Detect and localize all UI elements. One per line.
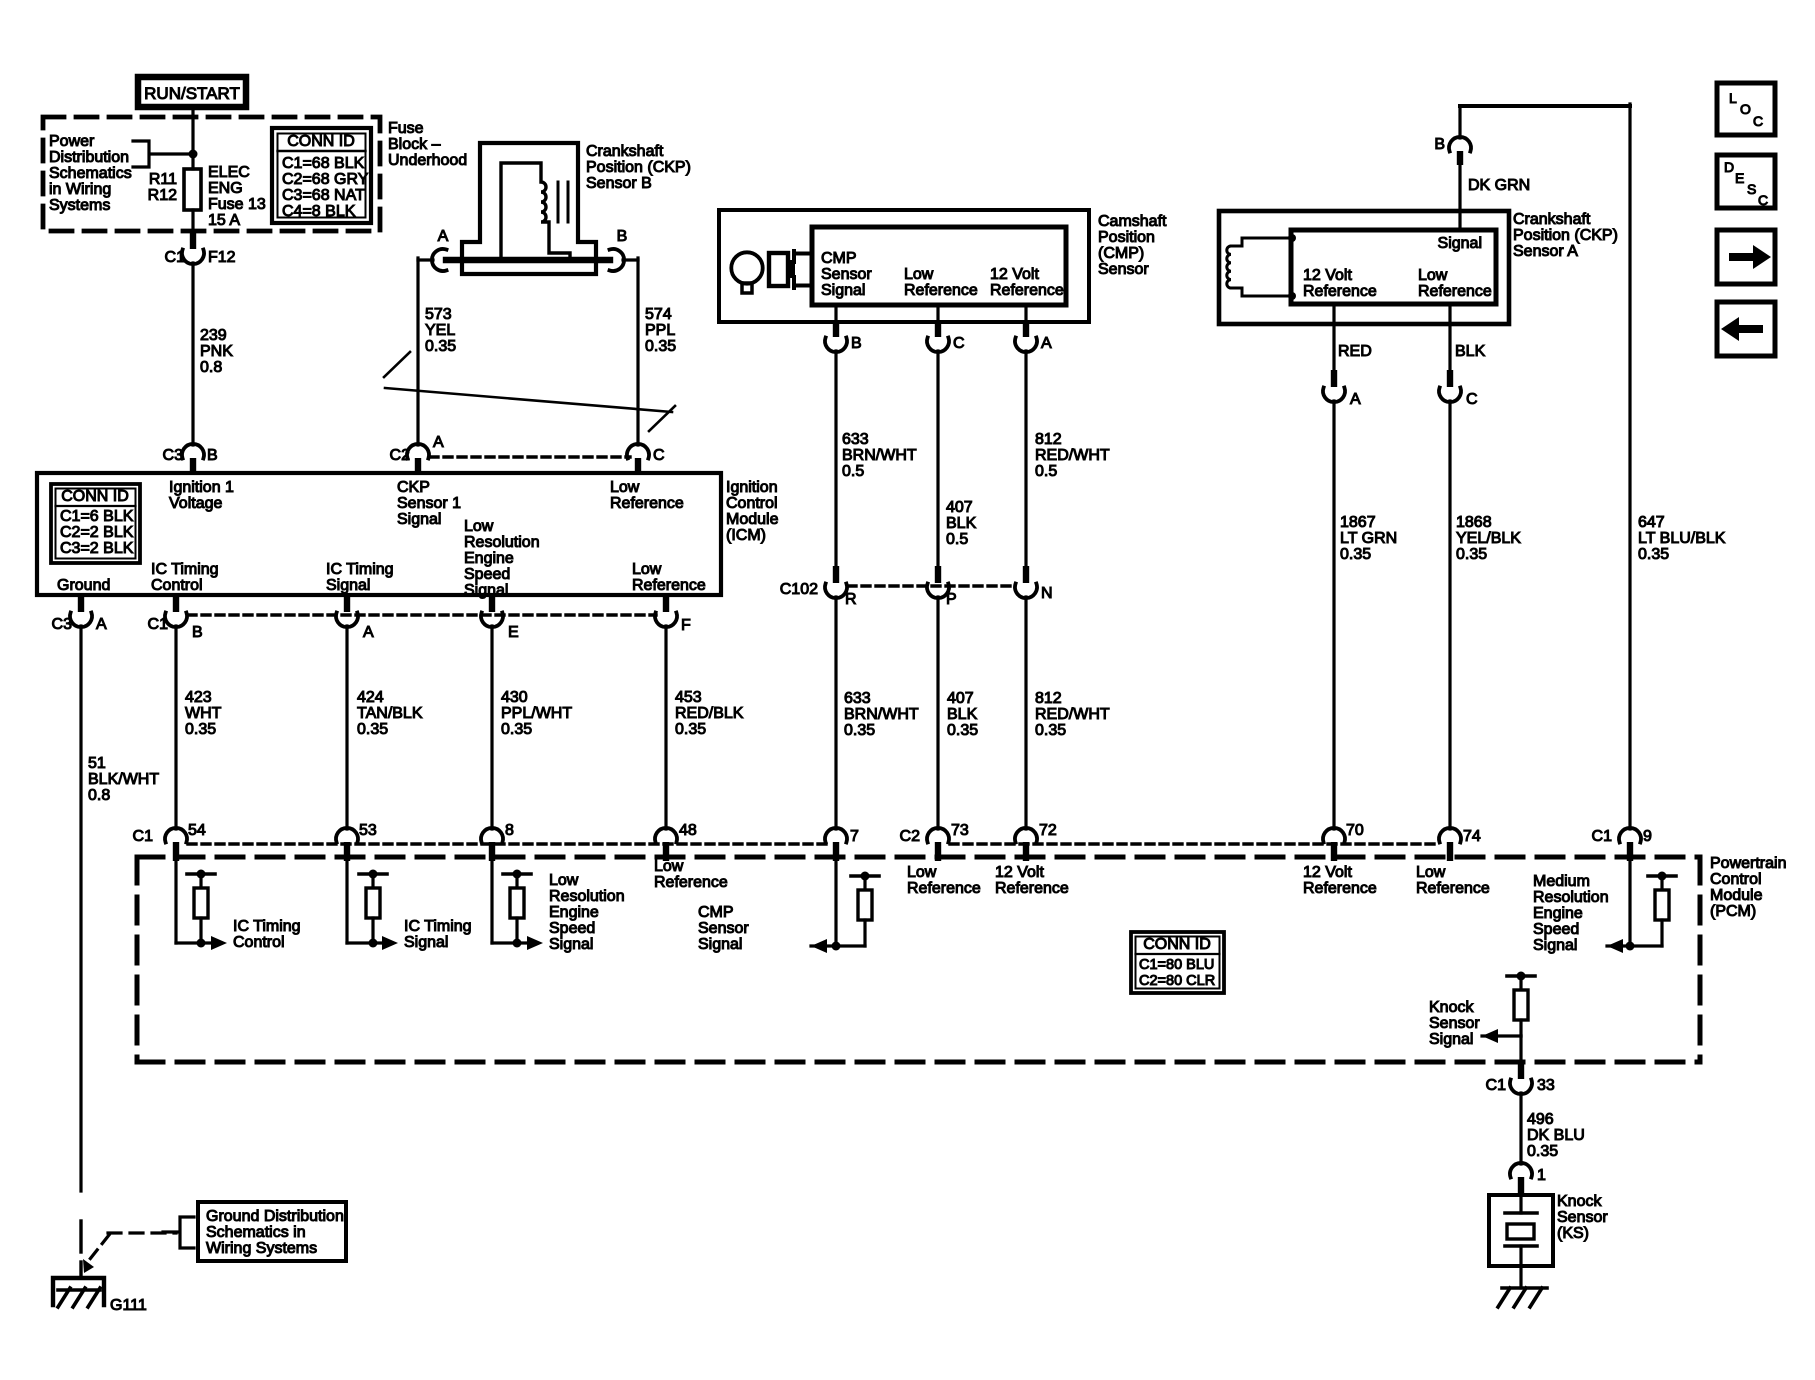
svg-text:Crankshaft: Crankshaft: [586, 143, 664, 160]
svg-text:Block –: Block –: [388, 136, 441, 153]
svg-text:Control: Control: [1710, 871, 1762, 888]
svg-text:Control: Control: [726, 495, 778, 512]
svg-text:496: 496: [1527, 1111, 1554, 1128]
dashed connector line C2/C1 PCM right: [950, 842, 1440, 845]
svg-text:Low: Low: [907, 864, 937, 881]
svg-text:CONN ID: CONN ID: [61, 488, 129, 505]
svg-text:Engine: Engine: [464, 550, 514, 567]
svg-text:Systems: Systems: [49, 197, 110, 214]
svg-text:Low: Low: [1418, 267, 1448, 284]
svg-text:73: 73: [951, 822, 969, 839]
svg-text:Signal: Signal: [404, 934, 448, 951]
svg-text:812: 812: [1035, 431, 1062, 448]
left arrow nav box: [1717, 302, 1775, 356]
wire 812 RED/WHT 0.35: [1024, 597, 1027, 829]
svg-text:8: 8: [505, 822, 514, 839]
svg-text:Fuse 13: Fuse 13: [208, 196, 266, 213]
svg-text:0.35: 0.35: [357, 721, 388, 738]
svg-text:Control: Control: [233, 934, 285, 951]
dashed connector line C2: [430, 455, 630, 458]
CKP sensor B pin bus bar: [446, 257, 610, 263]
svg-text:Signal: Signal: [397, 511, 441, 528]
wire RUN/START to fuse: [191, 110, 194, 169]
svg-text:Engine: Engine: [549, 904, 599, 921]
connector C at ICM top: [627, 444, 649, 459]
svg-text:Power: Power: [49, 133, 95, 150]
connector 53: [336, 828, 358, 843]
connector C102 P: [935, 566, 941, 583]
svg-text:574: 574: [645, 306, 672, 323]
ground distribution reference box: [198, 1202, 346, 1261]
svg-text:IC Timing: IC Timing: [151, 561, 219, 578]
svg-text:O: O: [1740, 101, 1751, 117]
svg-text:N: N: [1041, 585, 1053, 602]
svg-text:Ground Distribution: Ground Distribution: [206, 1208, 344, 1225]
svg-text:430: 430: [501, 689, 528, 706]
svg-text:74: 74: [1463, 828, 1481, 845]
svg-text:Ignition: Ignition: [726, 479, 778, 496]
crankshaft position sensor A outer box: [1219, 211, 1509, 324]
svg-text:RUN/START: RUN/START: [144, 84, 240, 103]
svg-text:Position: Position: [1098, 229, 1155, 246]
svg-text:53: 53: [359, 822, 377, 839]
svg-text:C1: C1: [148, 616, 169, 633]
svg-text:Voltage: Voltage: [169, 495, 222, 512]
svg-text:DK BLU: DK BLU: [1527, 1127, 1585, 1144]
svg-text:647: 647: [1638, 514, 1665, 531]
svg-text:IC Timing: IC Timing: [404, 918, 472, 935]
wire 239 PNK 0.8: [191, 263, 194, 445]
svg-text:C102: C102: [780, 581, 818, 598]
svg-text:C3: C3: [163, 447, 184, 464]
svg-text:WHT: WHT: [185, 705, 222, 722]
svg-text:C1: C1: [1592, 828, 1613, 845]
svg-text:Sensor: Sensor: [1098, 261, 1149, 278]
svg-text:PPL: PPL: [645, 322, 675, 339]
svg-text:(KS): (KS): [1557, 1225, 1589, 1242]
PCM input medium resolution engine speed signal: [1628, 861, 1631, 946]
svg-text:C: C: [1753, 113, 1763, 129]
svg-text:0.35: 0.35: [1638, 546, 1669, 563]
svg-text:IC Timing: IC Timing: [233, 918, 301, 935]
svg-text:0.35: 0.35: [844, 722, 875, 739]
CONN ID table ICM: [51, 484, 140, 563]
wire 1867 LT GRN 0.35: [1332, 401, 1335, 829]
svg-text:F12: F12: [208, 249, 236, 266]
wire 633 BRN/WHT 0.35: [834, 597, 837, 829]
wire 423 WHT 0.35: [174, 626, 177, 829]
PCM driver IC timing signal: [345, 861, 348, 943]
svg-text:LT GRN: LT GRN: [1340, 530, 1397, 547]
fuse F13 ELEC ENG 15A: [184, 169, 201, 210]
svg-text:CONN ID: CONN ID: [1143, 936, 1211, 953]
ground distribution bracket: [163, 1217, 194, 1248]
svg-text:48: 48: [679, 822, 697, 839]
svg-text:C2: C2: [390, 447, 411, 464]
svg-text:0.5: 0.5: [946, 531, 968, 548]
svg-text:1: 1: [1537, 1167, 1546, 1184]
svg-text:423: 423: [185, 689, 212, 706]
svg-text:0.35: 0.35: [185, 721, 216, 738]
svg-text:Underhood: Underhood: [388, 152, 467, 169]
svg-text:CMP: CMP: [821, 250, 857, 267]
svg-text:Schematics: Schematics: [49, 165, 132, 182]
svg-text:Reference: Reference: [654, 874, 728, 891]
ground G111: [53, 1278, 104, 1305]
connector 74: [1439, 828, 1461, 843]
svg-text:Signal: Signal: [821, 282, 865, 299]
PCM input low resolution engine speed signal: [490, 861, 493, 943]
svg-text:Reference: Reference: [995, 880, 1069, 897]
svg-text:D: D: [1724, 159, 1734, 175]
svg-text:633: 633: [844, 690, 871, 707]
svg-text:Resolution: Resolution: [464, 534, 540, 551]
svg-text:0.8: 0.8: [200, 359, 222, 376]
svg-text:A: A: [438, 228, 449, 245]
svg-text:Ignition 1: Ignition 1: [169, 479, 234, 496]
svg-text:Module: Module: [726, 511, 779, 528]
connector 72: [1015, 828, 1037, 843]
svg-text:C2=2 BLK: C2=2 BLK: [60, 524, 134, 541]
svg-text:RED/WHT: RED/WHT: [1035, 447, 1110, 464]
CKP A pin C connector (low ref): [1448, 304, 1451, 371]
svg-text:Camshaft: Camshaft: [1098, 213, 1167, 230]
svg-text:CMP: CMP: [698, 904, 734, 921]
svg-text:Reference: Reference: [610, 495, 684, 512]
svg-text:Low: Low: [1416, 864, 1446, 881]
svg-text:Knock: Knock: [1557, 1193, 1602, 1210]
svg-text:Sensor B: Sensor B: [586, 175, 652, 192]
svg-text:Sensor: Sensor: [1557, 1209, 1608, 1226]
svg-text:(PCM): (PCM): [1710, 903, 1756, 920]
dashed branch to ground distribution: [108, 1231, 176, 1234]
connector C2 73: [927, 828, 949, 843]
wire 51 BLK/WHT 0.8: [79, 626, 82, 1191]
wire 424 TAN/BLK 0.35: [345, 626, 348, 829]
svg-text:72: 72: [1039, 822, 1057, 839]
svg-text:0.8: 0.8: [88, 787, 110, 804]
svg-text:DK GRN: DK GRN: [1468, 177, 1530, 194]
svg-text:RED: RED: [1338, 343, 1372, 360]
svg-text:Engine: Engine: [1533, 905, 1583, 922]
dashed connector line C1 PCM left: [188, 842, 828, 845]
PCM input CMP sensor signal: [834, 861, 837, 946]
svg-text:51: 51: [88, 755, 106, 772]
dashed connector line C102: [848, 584, 1014, 587]
svg-text:0.35: 0.35: [1340, 546, 1371, 563]
svg-text:B: B: [192, 624, 203, 641]
connector B top: [1449, 137, 1471, 152]
svg-text:BLK/WHT: BLK/WHT: [88, 771, 159, 788]
svg-text:C2=80 CLR: C2=80 CLR: [1139, 973, 1215, 989]
svg-text:Reference: Reference: [1418, 283, 1492, 300]
svg-text:407: 407: [947, 690, 974, 707]
wire 407 BLK 0.35: [936, 597, 939, 829]
svg-text:(CMP): (CMP): [1098, 245, 1144, 262]
svg-text:Sensor A: Sensor A: [1513, 243, 1578, 260]
svg-text:Low: Low: [549, 872, 579, 889]
svg-text:G111: G111: [110, 1297, 147, 1314]
svg-text:Speed: Speed: [1533, 921, 1579, 938]
crankshaft position sensor B outline: [462, 143, 596, 274]
connector C1 33: [1518, 1062, 1524, 1079]
svg-text:C2=68 GRY: C2=68 GRY: [282, 171, 369, 188]
svg-text:in Wiring: in Wiring: [49, 181, 111, 198]
svg-text:0.35: 0.35: [675, 721, 706, 738]
svg-text:1868: 1868: [1456, 514, 1492, 531]
CMP pin C connector: [936, 305, 939, 321]
wire 496 DK BLU 0.35: [1519, 1093, 1522, 1164]
svg-text:Medium: Medium: [1533, 873, 1590, 890]
svg-text:Reference: Reference: [1416, 880, 1490, 897]
svg-text:0.35: 0.35: [1527, 1143, 1558, 1160]
svg-text:C1: C1: [165, 249, 186, 266]
CONN ID table PCM: [1131, 932, 1224, 993]
PCM knock sensor input: [1507, 974, 1535, 978]
svg-text:Module: Module: [1710, 887, 1763, 904]
svg-text:33: 33: [1537, 1077, 1555, 1094]
svg-text:E: E: [508, 624, 519, 641]
svg-text:A: A: [96, 616, 107, 633]
svg-text:Wiring Systems: Wiring Systems: [206, 1240, 317, 1257]
svg-text:Signal: Signal: [326, 577, 370, 594]
connector A: [344, 595, 350, 612]
connector C2 A at ICM top: [407, 444, 429, 459]
connector C1 9: [1619, 828, 1641, 843]
svg-text:C4=8 BLK: C4=8 BLK: [282, 203, 356, 220]
CKP B pin B connector: [610, 249, 625, 271]
svg-text:Sensor: Sensor: [1429, 1015, 1480, 1032]
svg-text:0.35: 0.35: [425, 338, 456, 355]
svg-text:C1=80 BLU: C1=80 BLU: [1139, 957, 1214, 973]
connector C3 A ICM ground pin: [78, 595, 84, 612]
svg-text:C3=68 NAT: C3=68 NAT: [282, 187, 365, 204]
svg-text:BLK: BLK: [947, 706, 978, 723]
connector 70: [1323, 828, 1345, 843]
svg-text:Low: Low: [464, 518, 494, 535]
connector 7: [825, 828, 847, 843]
connector C1 B: [173, 595, 179, 612]
connector F: [663, 595, 669, 612]
connector C3 B at ICM top: [182, 444, 204, 459]
svg-text:ENG: ENG: [208, 180, 243, 197]
svg-text:R11: R11: [149, 171, 177, 188]
svg-text:Resolution: Resolution: [1533, 889, 1609, 906]
svg-text:C1: C1: [133, 828, 154, 845]
svg-text:(ICM): (ICM): [726, 527, 766, 544]
svg-text:A: A: [433, 434, 444, 451]
svg-text:Sensor 1: Sensor 1: [397, 495, 461, 512]
svg-text:A: A: [1350, 391, 1361, 408]
connector 48: [655, 828, 677, 843]
svg-text:C3=2 BLK: C3=2 BLK: [60, 540, 134, 557]
svg-text:C1=6 BLK: C1=6 BLK: [60, 508, 134, 525]
PCM driver IC timing control: [174, 861, 177, 943]
knock sensor ground: [1502, 1286, 1547, 1290]
svg-text:C1: C1: [1486, 1077, 1507, 1094]
svg-text:0.5: 0.5: [842, 463, 864, 480]
svg-text:B: B: [207, 447, 218, 464]
svg-text:PPL/WHT: PPL/WHT: [501, 705, 572, 722]
connector C102 R: [833, 566, 839, 583]
svg-text:Reference: Reference: [1303, 880, 1377, 897]
svg-text:424: 424: [357, 689, 384, 706]
svg-text:12 Volt: 12 Volt: [995, 864, 1044, 881]
svg-text:15 A: 15 A: [208, 212, 240, 229]
twisted pair marker: [384, 352, 410, 377]
connector 8: [481, 828, 503, 843]
wire top rail to CKP A signal: [1460, 104, 1630, 108]
svg-text:BLK: BLK: [1455, 343, 1486, 360]
svg-text:407: 407: [946, 499, 973, 516]
svg-text:CONN ID: CONN ID: [287, 133, 355, 150]
connector C1 54: [165, 828, 187, 843]
connector E: [489, 595, 495, 612]
svg-text:YEL: YEL: [425, 322, 455, 339]
svg-text:Signal: Signal: [1429, 1031, 1473, 1048]
CKP A coil: [1227, 238, 1292, 296]
svg-text:Signal: Signal: [1533, 937, 1577, 954]
svg-text:0.35: 0.35: [501, 721, 532, 738]
power distribution bracket: [133, 141, 193, 167]
svg-text:Crankshaft: Crankshaft: [1513, 211, 1591, 228]
camshaft position sensor CMP outer box: [719, 210, 1089, 322]
dashed connector line C1 ICM bottom: [188, 613, 656, 616]
svg-text:573: 573: [425, 306, 452, 323]
svg-text:633: 633: [842, 431, 869, 448]
svg-text:BRN/WHT: BRN/WHT: [844, 706, 919, 723]
right arrow nav box: [1717, 230, 1775, 284]
CMP pin B connector: [834, 305, 837, 321]
svg-text:9: 9: [1643, 828, 1652, 845]
svg-text:Position (CKP): Position (CKP): [586, 159, 691, 176]
connector pin 1 knock sensor: [1510, 1163, 1532, 1178]
svg-text:Low: Low: [632, 561, 662, 578]
svg-text:C: C: [653, 447, 665, 464]
svg-text:Signal: Signal: [698, 936, 742, 953]
svg-text:0.35: 0.35: [1035, 722, 1066, 739]
CMP sensor plug: [769, 253, 788, 286]
wire DK GRN: [1458, 165, 1461, 230]
wire fuse to C1 F12: [191, 210, 194, 233]
CKP B pin A connector: [432, 249, 447, 271]
svg-text:Sensor: Sensor: [698, 920, 749, 937]
svg-text:IC Timing: IC Timing: [326, 561, 394, 578]
svg-text:R: R: [845, 591, 857, 608]
junction dot power distribution tap: [189, 150, 198, 159]
wire 633 BRN/WHT 0.5: [834, 351, 837, 566]
svg-text:Control: Control: [151, 577, 203, 594]
svg-text:C: C: [1758, 192, 1768, 208]
svg-text:0.5: 0.5: [1035, 463, 1057, 480]
svg-text:Fuse: Fuse: [388, 120, 424, 137]
svg-text:0.35: 0.35: [947, 722, 978, 739]
svg-text:BLK: BLK: [946, 515, 977, 532]
wire 430 PPL/WHT 0.35: [490, 626, 493, 829]
ignition control module ICM box: [37, 473, 721, 595]
svg-text:PNK: PNK: [200, 343, 233, 360]
svg-text:RED/BLK: RED/BLK: [675, 705, 744, 722]
svg-text:C: C: [1466, 391, 1478, 408]
CMP sensor magnet circle: [731, 252, 762, 283]
svg-text:Sensor: Sensor: [821, 266, 872, 283]
svg-text:Powertrain: Powertrain: [1710, 855, 1786, 872]
powertrain control module PCM dashed border: [137, 855, 1700, 860]
svg-text:Resolution: Resolution: [549, 888, 625, 905]
fuse block underhood dashed box: [43, 117, 380, 231]
svg-text:0.35: 0.35: [1456, 546, 1487, 563]
svg-text:B: B: [851, 335, 862, 352]
svg-text:LT BLU/BLK: LT BLU/BLK: [1638, 530, 1726, 547]
svg-text:C2: C2: [900, 828, 921, 845]
svg-text:RED/WHT: RED/WHT: [1035, 706, 1110, 723]
svg-text:453: 453: [675, 689, 702, 706]
svg-text:7: 7: [850, 828, 859, 845]
svg-text:BRN/WHT: BRN/WHT: [842, 447, 917, 464]
CKP sensor B core bars: [557, 182, 560, 222]
svg-text:Reference: Reference: [907, 880, 981, 897]
wire 453 RED/BLK 0.35: [664, 626, 667, 829]
svg-text:Schematics in: Schematics in: [206, 1224, 306, 1241]
svg-text:Reference: Reference: [632, 577, 706, 594]
svg-text:S: S: [1747, 181, 1756, 197]
svg-text:ELEC: ELEC: [208, 164, 250, 181]
svg-text:C: C: [953, 335, 965, 352]
svg-text:YEL/BLK: YEL/BLK: [1456, 530, 1521, 547]
svg-text:Low: Low: [610, 479, 640, 496]
CKP A inner box: [1291, 230, 1496, 304]
svg-text:1867: 1867: [1340, 514, 1376, 531]
svg-text:239: 239: [200, 327, 227, 344]
wire 812 RED/WHT 0.5: [1024, 351, 1027, 566]
svg-text:Reference: Reference: [1303, 283, 1377, 300]
svg-text:Speed: Speed: [549, 920, 595, 937]
wire 407 BLK 0.5: [936, 351, 939, 566]
svg-text:12 Volt: 12 Volt: [1303, 267, 1352, 284]
svg-text:Reference: Reference: [990, 282, 1064, 299]
svg-text:F: F: [681, 617, 691, 634]
svg-text:L: L: [1729, 90, 1737, 106]
svg-text:70: 70: [1346, 822, 1364, 839]
svg-text:E: E: [1735, 170, 1744, 186]
svg-text:Signal: Signal: [549, 936, 593, 953]
svg-text:812: 812: [1035, 690, 1062, 707]
knock sensor KS box: [1489, 1195, 1553, 1266]
svg-text:Distribution: Distribution: [49, 149, 129, 166]
CKP sensor B inner core: [501, 163, 570, 260]
svg-text:Knock: Knock: [1429, 999, 1474, 1016]
CMP pin A connector: [1024, 305, 1027, 321]
svg-text:B: B: [617, 228, 628, 245]
svg-text:R12: R12: [148, 187, 177, 204]
svg-text:A: A: [1041, 335, 1052, 352]
knock sensor element: [1519, 1195, 1522, 1213]
connector C1 F12: [190, 232, 196, 249]
wire 573 YEL 0.35: [418, 258, 433, 261]
svg-text:Low: Low: [654, 858, 684, 875]
svg-text:TAN/BLK: TAN/BLK: [357, 705, 423, 722]
CONN ID table fuse block: [272, 128, 371, 223]
svg-text:Ground: Ground: [57, 577, 110, 594]
DESC nav box: [1717, 155, 1775, 208]
svg-text:CKP: CKP: [397, 479, 430, 496]
svg-text:C1=68 BLK: C1=68 BLK: [282, 155, 365, 172]
svg-text:12 Volt: 12 Volt: [1303, 864, 1352, 881]
svg-text:Signal: Signal: [1438, 235, 1482, 252]
svg-text:Speed: Speed: [464, 566, 510, 583]
RUN/START feed box: [138, 77, 246, 107]
svg-text:0.35: 0.35: [645, 338, 676, 355]
